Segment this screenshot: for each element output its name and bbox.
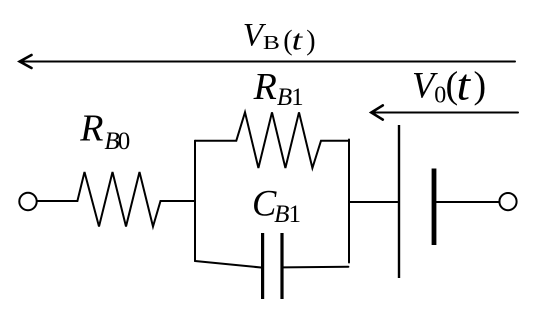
svg-text:V0(t): V0(t) <box>412 61 486 110</box>
